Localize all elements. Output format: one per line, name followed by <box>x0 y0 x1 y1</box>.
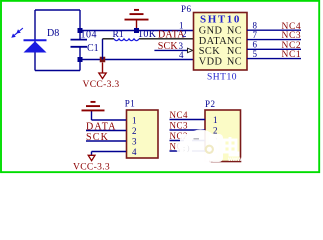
svg-text:NC4: NC4 <box>170 110 189 120</box>
svg-text:SCK: SCK <box>86 132 109 143</box>
svg-text:5: 5 <box>253 49 258 59</box>
svg-text:P2: P2 <box>205 99 216 109</box>
svg-text:SCK: SCK <box>158 41 179 52</box>
svg-text:7: 7 <box>253 30 258 40</box>
svg-text:NC3: NC3 <box>282 31 302 41</box>
svg-text:VCC-3.3: VCC-3.3 <box>83 79 120 90</box>
svg-text:www: www <box>227 157 242 163</box>
svg-text:4: 4 <box>132 147 137 157</box>
svg-text:2: 2 <box>132 126 137 136</box>
svg-text:NC: NC <box>227 56 242 67</box>
svg-text:C1: C1 <box>87 43 99 54</box>
svg-text:3: 3 <box>132 136 137 146</box>
svg-text:; ): ; ) <box>183 144 190 153</box>
svg-text:1: 1 <box>179 21 184 31</box>
svg-text:SHT10: SHT10 <box>200 14 241 26</box>
svg-text:VDD: VDD <box>199 56 223 67</box>
svg-text:R1: R1 <box>113 30 124 40</box>
svg-text:DATA: DATA <box>199 36 227 47</box>
svg-text:1: 1 <box>213 115 218 125</box>
svg-text:P6: P6 <box>181 4 192 14</box>
svg-text:DATA: DATA <box>86 122 117 133</box>
svg-text:2: 2 <box>213 125 218 135</box>
svg-text:10K: 10K <box>138 29 157 40</box>
svg-text:NC: NC <box>227 36 242 47</box>
svg-text:SHT10: SHT10 <box>207 73 237 83</box>
svg-text:NC1: NC1 <box>282 50 302 60</box>
svg-text:4: 4 <box>179 50 184 60</box>
svg-text:1: 1 <box>132 115 137 125</box>
svg-text:D8: D8 <box>47 28 59 39</box>
svg-text:VCC-3.3: VCC-3.3 <box>73 161 110 172</box>
svg-text:NC3: NC3 <box>170 121 189 131</box>
svg-text:P1: P1 <box>125 99 136 109</box>
